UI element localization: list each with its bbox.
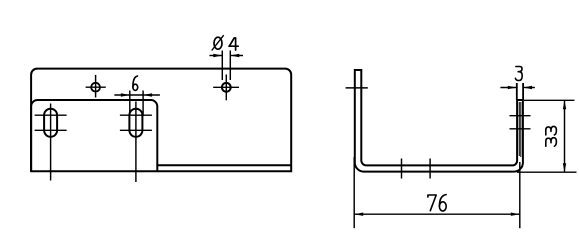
front view: left slot outline xyxy=(44,109,57,137)
dimension 3: left arrowhead xyxy=(508,86,517,89)
dimension dia-4: diameter symbol ellipse xyxy=(214,37,222,49)
dimension 33: rotated text digits 33 xyxy=(546,126,557,146)
dimension dia-4: text digit 4 xyxy=(229,38,238,50)
side view: channel profile outline xyxy=(355,70,523,172)
front view: dia-4 hole circle xyxy=(222,83,231,92)
front view: left slot centerlines xyxy=(35,104,67,181)
dimension 3: extension lines xyxy=(517,83,523,100)
dimension 33: top arrowhead xyxy=(563,100,566,109)
front view: inner bent-up plate outline xyxy=(31,100,157,171)
side view: slot arc mark ticks on right leg xyxy=(510,116,531,129)
dimension dia-4: left arrowhead xyxy=(213,54,222,57)
dimension dia-4: right arrowhead xyxy=(230,54,239,57)
dimension 6: extension lines xyxy=(130,91,143,117)
front view: middle slot outline xyxy=(129,109,142,137)
dimension 3: text digit 3 xyxy=(515,67,522,81)
dimension dia-4: extension lines xyxy=(222,51,230,81)
front view: dia-4 hole centerlines xyxy=(213,75,239,101)
front view: outer plate outline xyxy=(31,69,291,172)
front view: middle slot centerlines xyxy=(120,102,152,183)
dimension dia-4: diameter symbol slash xyxy=(212,35,224,50)
side view: hole mark ticks on base xyxy=(402,159,431,179)
front view: fold edge line xyxy=(157,164,291,166)
dimension 76: text digit 7 xyxy=(428,195,436,211)
dimension 6: text digit 6 xyxy=(133,76,138,90)
dimension 76: dimension line xyxy=(354,213,520,215)
dimension 76: right arrowhead xyxy=(511,213,520,216)
dimension 6: left arrowhead xyxy=(121,93,130,96)
dimension 76: text digit 6 xyxy=(439,195,446,211)
dimension 76: extension lines xyxy=(354,157,520,228)
dimension 3: right arrowhead xyxy=(523,86,532,89)
dimension dia-4: dimension lines with arrowheads xyxy=(209,55,243,57)
dimension 76: left arrowhead xyxy=(354,213,363,216)
dimension 33: bottom arrowhead xyxy=(563,163,566,172)
dimension 3: dimension lines xyxy=(500,87,535,89)
front view: small hole centerlines xyxy=(86,75,106,98)
side view: slot wall thin lines in right leg xyxy=(519,102,521,157)
dimension 33: reference extension lines xyxy=(517,100,577,172)
side view: hole mark tick on left leg xyxy=(346,87,368,89)
front view: small hole circle xyxy=(91,83,100,92)
dimension 6: right arrowhead xyxy=(143,93,152,96)
dimension 33: dimension line xyxy=(564,100,566,172)
dimension 6: dimension line xyxy=(114,94,159,96)
